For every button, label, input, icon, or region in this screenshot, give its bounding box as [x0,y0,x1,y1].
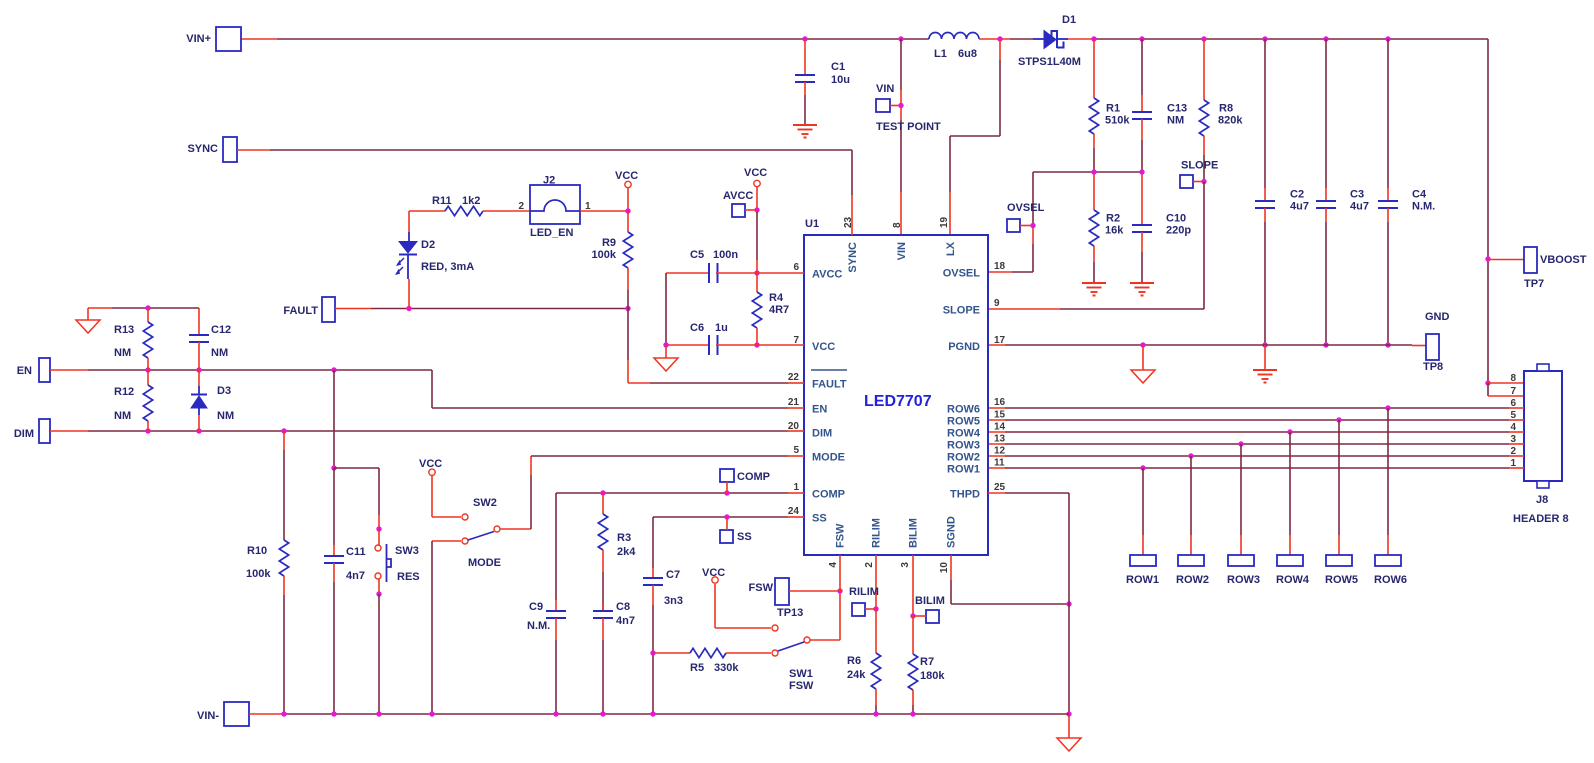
svg-text:C9: C9 [529,601,543,613]
svg-text:C13: C13 [1167,103,1187,115]
svg-text:MODE: MODE [812,452,845,464]
svg-text:FSW: FSW [749,582,774,594]
svg-text:SYNC: SYNC [187,143,218,155]
svg-text:SGND: SGND [946,516,958,548]
svg-text:SW1: SW1 [789,668,813,680]
svg-text:SW2: SW2 [473,497,497,509]
svg-text:VIN-: VIN- [197,710,219,722]
svg-text:SLOPE: SLOPE [943,305,980,317]
svg-text:18: 18 [994,261,1006,272]
svg-text:COMP: COMP [812,489,845,501]
svg-text:DIM: DIM [812,428,832,440]
svg-text:19: 19 [939,216,950,228]
svg-text:R7: R7 [920,656,934,668]
svg-text:C4: C4 [1412,189,1427,201]
svg-text:ROW4: ROW4 [947,428,981,440]
svg-text:VIN: VIN [876,83,894,95]
svg-text:EN: EN [812,404,827,416]
svg-text:SLOPE: SLOPE [1181,160,1218,172]
svg-text:ROW5: ROW5 [947,416,980,428]
svg-text:R5: R5 [690,662,704,674]
svg-text:6: 6 [793,262,799,273]
svg-text:180k: 180k [920,670,945,682]
svg-text:1: 1 [793,482,799,493]
svg-text:VCC: VCC [615,170,638,182]
svg-text:1k2: 1k2 [462,195,480,207]
svg-text:11: 11 [994,458,1005,469]
svg-text:R4: R4 [769,292,784,304]
svg-text:2k4: 2k4 [617,546,636,558]
svg-text:C8: C8 [616,601,630,613]
svg-text:ROW1: ROW1 [947,464,980,476]
svg-text:TP7: TP7 [1524,278,1544,290]
svg-text:ROW6: ROW6 [947,404,980,416]
svg-text:D3: D3 [217,385,231,397]
svg-text:NM: NM [211,347,228,359]
svg-text:TP8: TP8 [1423,361,1443,373]
svg-text:FSW: FSW [789,680,814,692]
svg-text:16k: 16k [1105,225,1124,237]
svg-text:R1: R1 [1106,103,1120,115]
svg-text:RES: RES [397,571,420,583]
svg-text:NM: NM [114,347,131,359]
svg-text:N.M.: N.M. [1412,201,1435,213]
svg-text:MODE: MODE [468,557,501,569]
svg-text:24: 24 [788,506,800,517]
svg-text:NM: NM [114,410,131,422]
svg-text:ROW6: ROW6 [1374,574,1407,586]
svg-text:ROW2: ROW2 [947,452,980,464]
svg-text:BILIM: BILIM [908,518,920,548]
svg-text:RILIM: RILIM [849,586,879,598]
svg-text:C12: C12 [211,324,231,336]
svg-text:15: 15 [994,410,1006,421]
svg-text:C2: C2 [1290,189,1304,201]
svg-text:STPS1L40M: STPS1L40M [1018,56,1081,68]
svg-text:820k: 820k [1218,115,1243,127]
svg-text:8: 8 [1510,373,1516,384]
svg-text:TEST POINT: TEST POINT [876,121,941,133]
svg-text:COMP: COMP [737,471,770,483]
svg-text:VBOOST: VBOOST [1540,254,1587,266]
svg-text:LX: LX [945,241,957,256]
svg-text:C3: C3 [1350,189,1364,201]
svg-text:C7: C7 [666,569,680,581]
svg-text:RED, 3mA: RED, 3mA [421,261,474,273]
svg-text:4u7: 4u7 [1290,201,1309,213]
svg-text:SW3: SW3 [395,545,419,557]
svg-text:J8: J8 [1536,494,1548,506]
svg-text:C1: C1 [831,61,845,73]
svg-text:ROW1: ROW1 [1126,574,1159,586]
svg-text:100k: 100k [246,568,271,580]
svg-text:R11: R11 [432,195,452,207]
svg-text:LED_EN: LED_EN [530,227,573,239]
svg-text:510k: 510k [1105,115,1130,127]
svg-text:VCC: VCC [702,567,725,579]
svg-text:FSW: FSW [835,523,847,548]
svg-text:C11: C11 [346,546,366,558]
svg-text:17: 17 [994,335,1006,346]
svg-text:4n7: 4n7 [346,570,365,582]
svg-text:22: 22 [788,372,800,383]
svg-text:VCC: VCC [419,458,442,470]
svg-text:ROW5: ROW5 [1325,574,1358,586]
svg-text:100n: 100n [713,249,738,261]
svg-text:EN: EN [17,365,32,377]
svg-text:ROW3: ROW3 [947,440,980,452]
svg-text:10u: 10u [831,74,850,86]
svg-text:SS: SS [812,513,827,525]
svg-text:21: 21 [788,397,800,408]
svg-text:FAULT: FAULT [812,379,847,391]
svg-text:NM: NM [217,410,234,422]
svg-text:9: 9 [994,298,1000,309]
svg-text:4n7: 4n7 [616,615,635,627]
svg-text:4: 4 [828,562,839,568]
svg-text:3: 3 [900,562,911,568]
svg-text:VIN: VIN [896,242,908,260]
svg-text:GND: GND [1425,311,1450,323]
svg-text:2: 2 [518,201,524,212]
svg-text:VCC: VCC [744,167,767,179]
svg-text:R6: R6 [847,655,861,667]
svg-text:HEADER 8: HEADER 8 [1513,513,1569,525]
svg-text:2: 2 [864,562,875,568]
svg-text:R2: R2 [1106,213,1120,225]
svg-text:C5: C5 [690,249,704,261]
svg-text:10: 10 [939,562,950,574]
svg-text:13: 13 [994,434,1006,445]
svg-text:THPD: THPD [950,489,980,501]
svg-text:25: 25 [994,482,1006,493]
svg-text:TP13: TP13 [777,607,803,619]
svg-text:RILIM: RILIM [871,518,883,548]
svg-text:7: 7 [1510,386,1516,397]
svg-text:R8: R8 [1219,103,1233,115]
svg-text:BILIM: BILIM [915,595,945,607]
svg-text:SYNC: SYNC [847,242,859,273]
svg-text:R12: R12 [114,386,134,398]
svg-text:AVCC: AVCC [812,269,842,281]
svg-text:14: 14 [994,422,1006,433]
svg-text:LED7707: LED7707 [864,393,932,410]
svg-text:D2: D2 [421,239,435,251]
svg-text:D1: D1 [1062,14,1076,26]
svg-text:R13: R13 [114,324,134,336]
svg-text:C6: C6 [690,322,704,334]
svg-text:DIM: DIM [14,428,34,440]
svg-text:PGND: PGND [948,341,980,353]
svg-text:8: 8 [892,222,903,228]
svg-text:U1: U1 [805,218,819,230]
svg-text:5: 5 [793,445,799,456]
svg-text:R3: R3 [617,532,631,544]
svg-text:N.M.: N.M. [527,620,550,632]
svg-text:16: 16 [994,397,1006,408]
svg-text:NM: NM [1167,115,1184,127]
svg-text:AVCC: AVCC [723,190,753,202]
svg-text:OVSEL: OVSEL [943,268,981,280]
svg-text:SS: SS [737,531,752,543]
svg-text:VIN+: VIN+ [186,33,211,45]
svg-text:3n3: 3n3 [664,595,683,607]
svg-text:J2: J2 [543,175,555,187]
svg-text:VCC: VCC [812,341,835,353]
svg-text:ROW3: ROW3 [1227,574,1260,586]
svg-text:100k: 100k [592,249,617,261]
svg-text:4u7: 4u7 [1350,201,1369,213]
svg-text:ROW4: ROW4 [1276,574,1310,586]
svg-text:ROW2: ROW2 [1176,574,1209,586]
svg-text:R10: R10 [247,545,267,557]
svg-text:1u: 1u [715,322,728,334]
svg-text:6u8: 6u8 [958,48,977,60]
svg-text:FAULT: FAULT [283,305,318,317]
svg-text:330k: 330k [714,662,739,674]
svg-text:220p: 220p [1166,225,1191,237]
svg-text:12: 12 [994,446,1006,457]
svg-text:OVSEL: OVSEL [1007,202,1045,214]
svg-text:24k: 24k [847,669,866,681]
svg-text:4R7: 4R7 [769,304,789,316]
svg-text:C10: C10 [1166,213,1186,225]
svg-text:L1: L1 [934,48,947,60]
svg-text:R9: R9 [602,237,616,249]
